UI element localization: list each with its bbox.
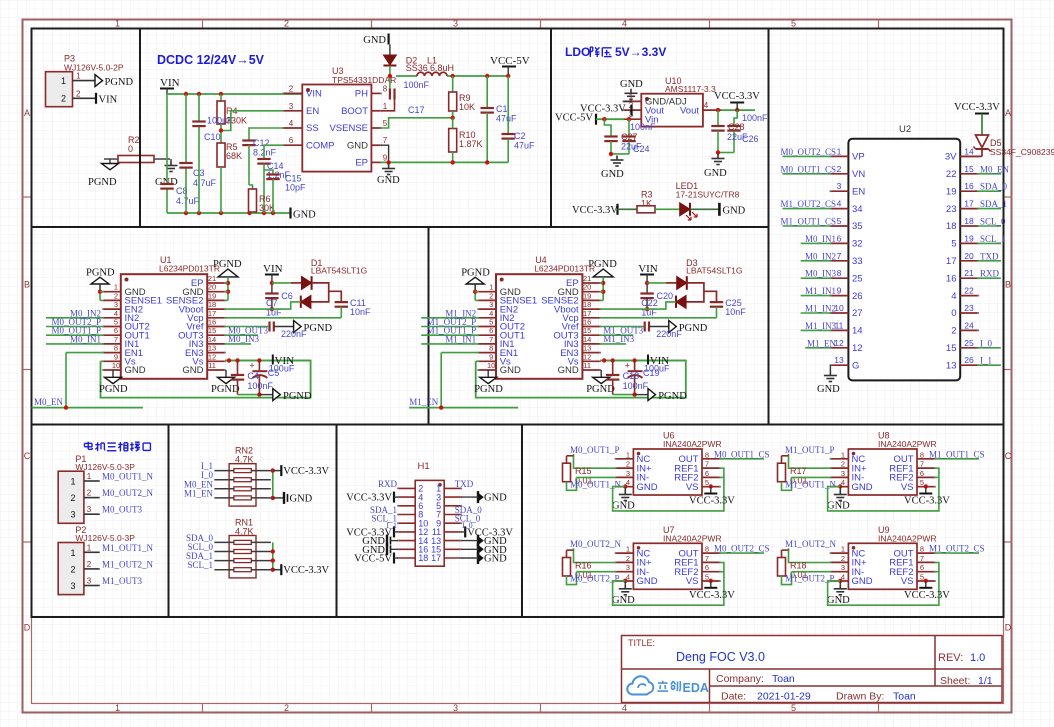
svg-text:GND: GND xyxy=(827,595,850,606)
svg-text:3: 3 xyxy=(626,563,630,572)
svg-text:34: 34 xyxy=(852,204,863,215)
svg-text:C7: C7 xyxy=(266,298,278,308)
svg-text:M0_OUT2_CS: M0_OUT2_CS xyxy=(714,544,770,554)
svg-text:VCC-3.3V: VCC-3.3V xyxy=(572,205,618,216)
svg-text:M1_OUT1_CS: M1_OUT1_CS xyxy=(780,217,836,227)
svg-text:PGND: PGND xyxy=(304,323,333,334)
svg-text:3: 3 xyxy=(70,581,75,591)
svg-text:C24: C24 xyxy=(633,144,650,154)
svg-text:M0_EN: M0_EN xyxy=(980,164,1010,174)
svg-text:12: 12 xyxy=(852,343,863,354)
svg-text:C12: C12 xyxy=(253,138,270,148)
svg-text:I_0: I_0 xyxy=(980,338,992,348)
svg-text:100nF: 100nF xyxy=(247,381,273,391)
svg-text:SCL_0: SCL_0 xyxy=(980,217,1006,227)
svg-text:L1: L1 xyxy=(427,56,437,66)
svg-text:M0_IN3: M0_IN3 xyxy=(228,334,259,344)
svg-text:VCC-5V: VCC-5V xyxy=(490,55,530,67)
svg-text:2: 2 xyxy=(841,460,845,469)
svg-text:M0_IN1: M0_IN1 xyxy=(70,334,101,344)
svg-text:8: 8 xyxy=(705,450,709,459)
svg-text:4.7uF: 4.7uF xyxy=(176,196,200,206)
svg-text:10pF: 10pF xyxy=(285,183,306,193)
svg-text:PGND: PGND xyxy=(211,384,240,395)
svg-text:PGND: PGND xyxy=(658,391,687,402)
svg-text:1: 1 xyxy=(383,102,388,111)
svg-text:100nF: 100nF xyxy=(630,122,656,132)
svg-text:GND: GND xyxy=(612,501,635,512)
svg-text:GND: GND xyxy=(363,35,386,46)
svg-text:M0_OUT1_N: M0_OUT1_N xyxy=(102,472,153,482)
svg-text:GND: GND xyxy=(637,576,658,587)
svg-text:25: 25 xyxy=(852,273,863,284)
svg-text:PH: PH xyxy=(355,89,368,100)
svg-text:TXD: TXD xyxy=(980,251,999,261)
svg-text:19: 19 xyxy=(583,291,591,300)
svg-text:PGND: PGND xyxy=(588,259,617,270)
svg-text:5: 5 xyxy=(383,119,388,128)
svg-text:I_0: I_0 xyxy=(462,521,473,530)
svg-text:VIN: VIN xyxy=(99,95,118,106)
svg-text:PGND: PGND xyxy=(99,384,128,395)
svg-text:RXD: RXD xyxy=(378,479,398,489)
svg-text:15: 15 xyxy=(583,326,591,335)
svg-text:3: 3 xyxy=(841,563,845,572)
svg-text:23: 23 xyxy=(964,303,974,313)
svg-text:M0_OUT1_CS: M0_OUT1_CS xyxy=(714,449,770,459)
svg-text:27: 27 xyxy=(852,308,863,319)
svg-text:14: 14 xyxy=(852,326,863,337)
svg-text:2: 2 xyxy=(837,164,842,174)
svg-text:4: 4 xyxy=(704,101,709,110)
svg-text:4: 4 xyxy=(837,199,842,209)
svg-text:33: 33 xyxy=(852,256,863,267)
svg-text:8: 8 xyxy=(705,545,709,554)
svg-text:C1: C1 xyxy=(496,104,508,114)
svg-text:Date:: Date: xyxy=(721,691,746,703)
svg-text:C: C xyxy=(1005,451,1012,461)
svg-text:2: 2 xyxy=(284,703,289,713)
svg-text:16: 16 xyxy=(583,318,591,327)
svg-text:C10: C10 xyxy=(204,132,221,142)
svg-text:M0_OUT1_CS: M0_OUT1_CS xyxy=(780,164,836,174)
svg-text:C18: C18 xyxy=(623,371,640,381)
svg-text:7: 7 xyxy=(489,335,493,344)
svg-text:M0_OUT2_N: M0_OUT2_N xyxy=(570,539,621,549)
svg-text:16: 16 xyxy=(208,318,216,327)
svg-text:VCC-3.3V: VCC-3.3V xyxy=(904,496,950,507)
svg-text:22: 22 xyxy=(964,286,974,296)
svg-text:6: 6 xyxy=(920,469,924,478)
svg-text:R17: R17 xyxy=(790,466,807,476)
svg-text:9: 9 xyxy=(837,286,842,296)
svg-text:VP: VP xyxy=(852,152,865,163)
svg-text:6: 6 xyxy=(489,326,493,335)
svg-text:EN: EN xyxy=(306,106,319,117)
svg-text:0: 0 xyxy=(128,144,133,154)
svg-text:VCC-3.3V: VCC-3.3V xyxy=(346,493,392,504)
svg-text:18: 18 xyxy=(946,221,957,232)
svg-text:M1_OUT2_N: M1_OUT2_N xyxy=(102,559,153,569)
svg-text:8: 8 xyxy=(920,450,924,459)
svg-text:3: 3 xyxy=(289,102,294,111)
svg-text:GND: GND xyxy=(704,168,727,179)
svg-text:VCC-5V: VCC-5V xyxy=(555,113,593,124)
svg-text:PGND: PGND xyxy=(213,259,242,270)
svg-text:VN: VN xyxy=(852,169,865,180)
svg-text:10: 10 xyxy=(112,361,120,370)
svg-text:GND: GND xyxy=(484,554,507,565)
svg-text:EP: EP xyxy=(355,158,368,169)
svg-text:16: 16 xyxy=(946,273,957,284)
svg-text:AMS1117-3.3: AMS1117-3.3 xyxy=(665,84,716,94)
svg-text:21: 21 xyxy=(964,268,974,278)
svg-text:14: 14 xyxy=(964,146,974,156)
svg-text:INA240A2PWR: INA240A2PWR xyxy=(663,533,722,543)
svg-text:4.7uF: 4.7uF xyxy=(193,178,217,188)
svg-text:2: 2 xyxy=(626,554,630,563)
svg-text:1: 1 xyxy=(626,450,630,459)
svg-text:L6234PD013TR: L6234PD013TR xyxy=(159,264,220,274)
svg-text:21: 21 xyxy=(583,274,591,283)
svg-text:7: 7 xyxy=(837,251,842,261)
svg-text:C26: C26 xyxy=(742,134,759,144)
svg-text:LBAT54SLT1G: LBAT54SLT1G xyxy=(686,266,742,276)
svg-text:2: 2 xyxy=(289,84,294,93)
svg-text:VCC-3.3V: VCC-3.3V xyxy=(283,466,329,477)
svg-text:VS: VS xyxy=(901,576,914,587)
svg-text:5: 5 xyxy=(705,478,709,487)
svg-text:Deng FOC V3.0: Deng FOC V3.0 xyxy=(676,650,765,664)
svg-text:INA240A2PWR: INA240A2PWR xyxy=(878,533,937,543)
svg-text:GND: GND xyxy=(723,206,746,217)
svg-text:4: 4 xyxy=(114,309,118,318)
svg-text:INA240A2PWR: INA240A2PWR xyxy=(663,439,722,449)
svg-text:L6234PD013TR: L6234PD013TR xyxy=(534,264,595,274)
svg-text:GND: GND xyxy=(182,365,203,376)
svg-text:PGND: PGND xyxy=(679,323,708,334)
svg-text:2: 2 xyxy=(841,554,845,563)
svg-text:100nF: 100nF xyxy=(742,113,768,123)
svg-text:RXD: RXD xyxy=(980,269,1000,279)
svg-text:2: 2 xyxy=(87,489,92,498)
svg-text:1: 1 xyxy=(70,548,75,558)
svg-text:13: 13 xyxy=(834,355,844,365)
svg-text:M1_IN1: M1_IN1 xyxy=(445,334,476,344)
svg-text:47uF: 47uF xyxy=(514,141,535,151)
svg-text:M1_IN3: M1_IN3 xyxy=(805,321,836,331)
svg-text:C4: C4 xyxy=(247,371,259,381)
svg-text:1: 1 xyxy=(841,545,845,554)
svg-text:1.87K: 1.87K xyxy=(459,139,483,149)
svg-text:2: 2 xyxy=(70,564,75,574)
svg-text:I_1: I_1 xyxy=(386,521,397,530)
svg-text:20: 20 xyxy=(583,283,591,292)
svg-text:Toan: Toan xyxy=(893,691,916,703)
svg-text:GND: GND xyxy=(817,384,840,395)
svg-text:M1_EN: M1_EN xyxy=(807,338,837,348)
svg-text:1: 1 xyxy=(115,703,120,713)
svg-text:GND: GND xyxy=(125,365,146,376)
svg-text:7: 7 xyxy=(383,136,388,145)
svg-text:7: 7 xyxy=(920,460,924,469)
svg-text:M1_OUT3: M1_OUT3 xyxy=(102,576,142,586)
svg-text:2021-01-29: 2021-01-29 xyxy=(757,691,811,703)
svg-text:M1_OUT2_N: M1_OUT2_N xyxy=(785,539,836,549)
svg-text:VIN: VIN xyxy=(306,89,322,100)
svg-text:2: 2 xyxy=(626,460,630,469)
svg-text:GND: GND xyxy=(500,365,521,376)
svg-text:VS: VS xyxy=(901,482,914,493)
svg-text:GND: GND xyxy=(852,576,873,587)
svg-text:VIN: VIN xyxy=(638,263,658,275)
svg-text:GND: GND xyxy=(852,482,873,493)
svg-text:GND: GND xyxy=(484,493,507,504)
svg-text:A: A xyxy=(24,108,30,118)
svg-text:9: 9 xyxy=(489,352,493,361)
svg-text:GND: GND xyxy=(827,501,850,512)
svg-text:8: 8 xyxy=(489,344,493,353)
svg-text:M1_OUT1_N: M1_OUT1_N xyxy=(785,479,836,489)
svg-text:20: 20 xyxy=(964,251,974,261)
svg-text:C19: C19 xyxy=(643,368,660,378)
svg-text:11: 11 xyxy=(583,361,591,370)
svg-text:25: 25 xyxy=(964,338,974,348)
svg-text:13: 13 xyxy=(208,344,216,353)
svg-text:SS: SS xyxy=(306,123,319,134)
svg-text:PGND: PGND xyxy=(586,384,615,395)
svg-text:INA240A2PWR: INA240A2PWR xyxy=(878,439,937,449)
svg-text:COMP: COMP xyxy=(306,140,335,151)
svg-text:19: 19 xyxy=(964,233,974,243)
svg-text:14: 14 xyxy=(583,335,591,344)
svg-text:3: 3 xyxy=(453,703,458,713)
svg-text:2: 2 xyxy=(76,89,81,98)
svg-text:10K: 10K xyxy=(459,102,475,112)
svg-text:GND: GND xyxy=(601,169,624,180)
svg-text:C2: C2 xyxy=(514,131,526,141)
svg-text:M0_OUT2_N: M0_OUT2_N xyxy=(102,488,153,498)
svg-text:M0_IN2: M0_IN2 xyxy=(805,251,836,261)
svg-text:1: 1 xyxy=(87,472,92,481)
svg-text:18: 18 xyxy=(583,300,591,309)
svg-text:VIN: VIN xyxy=(263,263,283,275)
svg-text:U2: U2 xyxy=(899,124,911,135)
svg-text:5: 5 xyxy=(489,318,493,327)
svg-text:35: 35 xyxy=(852,221,863,232)
svg-text:Drawn By:: Drawn By: xyxy=(836,691,884,703)
svg-text:9: 9 xyxy=(114,352,118,361)
svg-text:5: 5 xyxy=(920,478,924,487)
svg-text:5: 5 xyxy=(951,239,956,250)
svg-text:2: 2 xyxy=(70,493,75,503)
svg-text:20: 20 xyxy=(208,283,216,292)
svg-text:3: 3 xyxy=(489,300,493,309)
svg-text:TITLE:: TITLE: xyxy=(628,638,655,648)
svg-text:M0_OUT2_CS: M0_OUT2_CS xyxy=(780,147,836,157)
svg-text:H1: H1 xyxy=(418,461,430,472)
svg-text:1: 1 xyxy=(61,76,66,86)
svg-text:C6: C6 xyxy=(281,291,293,301)
svg-text:16: 16 xyxy=(964,181,974,191)
svg-text:2: 2 xyxy=(284,19,289,29)
svg-text:C22: C22 xyxy=(641,298,658,308)
svg-text:15: 15 xyxy=(964,164,974,174)
svg-text:M0_IN1: M0_IN1 xyxy=(805,234,836,244)
svg-text:100nF: 100nF xyxy=(404,80,430,90)
svg-text:1K: 1K xyxy=(641,199,652,209)
svg-text:17: 17 xyxy=(431,553,441,563)
svg-text:1: 1 xyxy=(76,72,81,81)
svg-text:C5: C5 xyxy=(268,368,280,378)
svg-text:100nF: 100nF xyxy=(623,381,649,391)
svg-text:1: 1 xyxy=(626,545,630,554)
svg-text:3: 3 xyxy=(87,577,92,586)
svg-text:EDA: EDA xyxy=(683,681,709,695)
svg-text:330K: 330K xyxy=(226,116,247,126)
svg-text:17: 17 xyxy=(583,309,591,318)
svg-text:6: 6 xyxy=(705,563,709,572)
svg-text:6: 6 xyxy=(289,136,294,145)
svg-text:7: 7 xyxy=(705,460,709,469)
svg-text:3: 3 xyxy=(87,505,92,514)
svg-text:C28: C28 xyxy=(728,122,745,132)
svg-text:VCC-3.3V: VCC-3.3V xyxy=(904,590,950,601)
svg-text:M1_IN3: M1_IN3 xyxy=(603,334,634,344)
svg-text:PGND: PGND xyxy=(283,391,312,402)
svg-text:+: + xyxy=(625,361,630,371)
svg-text:M1_EN: M1_EN xyxy=(184,488,214,498)
svg-text:I_1: I_1 xyxy=(980,356,992,366)
svg-text:1: 1 xyxy=(837,146,842,156)
svg-text:1: 1 xyxy=(114,283,118,292)
svg-text:5: 5 xyxy=(791,19,796,29)
svg-text:1: 1 xyxy=(87,543,92,552)
svg-text:M0_IN3: M0_IN3 xyxy=(805,269,836,279)
svg-text:GND: GND xyxy=(620,79,643,90)
svg-text:VCC-3.3V: VCC-3.3V xyxy=(689,496,735,507)
svg-text:DCDC 12/24V→5V: DCDC 12/24V→5V xyxy=(157,53,265,67)
svg-text:R16: R16 xyxy=(575,560,592,570)
svg-text:26: 26 xyxy=(964,355,974,365)
svg-text:2: 2 xyxy=(114,291,118,300)
svg-text:220nF: 220nF xyxy=(281,329,307,339)
svg-text:1: 1 xyxy=(70,477,75,487)
svg-text:GND: GND xyxy=(347,140,368,151)
svg-text:17: 17 xyxy=(946,256,957,267)
svg-text:220nF: 220nF xyxy=(656,329,682,339)
svg-text:47uF: 47uF xyxy=(496,114,517,124)
svg-text:5V→3.3V: 5V→3.3V xyxy=(615,45,666,59)
svg-text:GND: GND xyxy=(637,482,658,493)
svg-text:4: 4 xyxy=(622,703,627,713)
svg-text:1.0: 1.0 xyxy=(970,652,985,664)
svg-text:VCC-3.3V: VCC-3.3V xyxy=(689,590,735,601)
svg-text:3V: 3V xyxy=(945,152,957,163)
svg-text:GND: GND xyxy=(558,365,579,376)
svg-text:19: 19 xyxy=(208,291,216,300)
svg-text:VS: VS xyxy=(686,576,699,587)
svg-text:3: 3 xyxy=(114,300,118,309)
svg-text:26: 26 xyxy=(852,291,863,302)
svg-text:2: 2 xyxy=(87,560,92,569)
svg-text:6: 6 xyxy=(920,563,924,572)
svg-text:5: 5 xyxy=(837,216,842,226)
svg-text:SCL_1: SCL_1 xyxy=(187,560,213,570)
svg-text:M1_OUT1_CS: M1_OUT1_CS xyxy=(929,449,985,459)
svg-text:GND: GND xyxy=(290,493,313,504)
svg-text:23: 23 xyxy=(946,204,957,215)
svg-text:C20: C20 xyxy=(657,291,674,301)
svg-text:7: 7 xyxy=(705,554,709,563)
svg-text:M1_OUT1_P: M1_OUT1_P xyxy=(785,445,835,455)
svg-text:8: 8 xyxy=(837,268,842,278)
svg-text:Vout: Vout xyxy=(680,105,699,116)
svg-text:Sheet:: Sheet: xyxy=(940,675,970,687)
svg-text:2: 2 xyxy=(489,291,493,300)
svg-text:8: 8 xyxy=(114,344,118,353)
svg-text:C: C xyxy=(24,451,31,461)
svg-text:M1_OUT2_CS: M1_OUT2_CS xyxy=(929,544,985,554)
svg-text:Toan: Toan xyxy=(772,673,795,685)
svg-text:3: 3 xyxy=(70,510,75,520)
svg-text:M0_EN: M0_EN xyxy=(34,397,64,407)
svg-text:7: 7 xyxy=(920,554,924,563)
svg-text:GND: GND xyxy=(293,210,316,221)
svg-text:SDA_0: SDA_0 xyxy=(980,182,1008,192)
svg-text:14: 14 xyxy=(208,335,216,344)
svg-text:18: 18 xyxy=(208,300,216,309)
svg-text:1: 1 xyxy=(115,19,120,29)
svg-text:11: 11 xyxy=(208,361,216,370)
svg-text:M0_OUT1_N: M0_OUT1_N xyxy=(570,479,621,489)
svg-text:5: 5 xyxy=(791,703,796,713)
svg-text:18: 18 xyxy=(418,553,428,563)
svg-text:8: 8 xyxy=(920,545,924,554)
svg-text:M1_EN: M1_EN xyxy=(409,397,439,407)
svg-text:4: 4 xyxy=(622,19,627,29)
svg-text:SCL_1: SCL_1 xyxy=(980,234,1006,244)
svg-text:3: 3 xyxy=(841,469,845,478)
svg-text:SS36: SS36 xyxy=(406,63,428,73)
svg-text:R15: R15 xyxy=(575,466,592,476)
svg-text:PGND: PGND xyxy=(88,177,117,188)
svg-text:6: 6 xyxy=(837,233,842,243)
svg-text:M1_OUT1_N: M1_OUT1_N xyxy=(102,543,153,553)
svg-text:18: 18 xyxy=(964,216,974,226)
svg-text:0: 0 xyxy=(951,308,956,319)
svg-text:3: 3 xyxy=(837,181,842,191)
svg-text:REV:: REV: xyxy=(938,652,963,664)
svg-text:VIN: VIN xyxy=(160,77,180,89)
svg-text:B: B xyxy=(24,280,30,290)
svg-text:GND: GND xyxy=(377,175,400,186)
svg-text:1: 1 xyxy=(489,283,493,292)
svg-text:VS: VS xyxy=(686,482,699,493)
svg-text:6: 6 xyxy=(705,469,709,478)
svg-text:10nF: 10nF xyxy=(350,307,371,317)
svg-text:17-21SUYC/TR8: 17-21SUYC/TR8 xyxy=(676,190,740,200)
svg-text:21: 21 xyxy=(208,274,216,283)
svg-text:2: 2 xyxy=(61,94,66,104)
svg-text:3: 3 xyxy=(626,469,630,478)
svg-text:A: A xyxy=(1005,108,1011,118)
svg-text:VSENSE: VSENSE xyxy=(329,123,368,134)
svg-text:17: 17 xyxy=(964,199,974,209)
svg-text:12: 12 xyxy=(583,352,591,361)
svg-text:1: 1 xyxy=(841,450,845,459)
svg-text:C17: C17 xyxy=(408,105,425,115)
